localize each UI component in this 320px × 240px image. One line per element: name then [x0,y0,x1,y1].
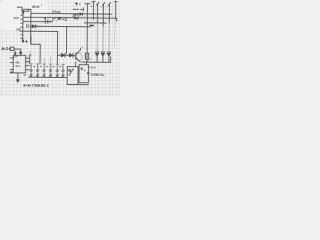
boxes shared bottom [67,83,88,85]
plus-dot (75-80,2-5) [75,3,77,5]
paper background [0,0,120,96]
speck top-left [1,0,2,1]
riser above C4 [50,57,52,65]
wire row y21.8 [23,20,52,22]
diode D1 [80,13,83,16]
IC U3 left edge [22,10,24,42]
wire row y17.7 [23,17,117,21]
electrolytic capacitor C3 [43,64,49,77]
speck above Q2 [82,47,83,48]
wire row y31.6 [20,30,57,32]
IC1 right pins [26,58,30,70]
feed wire to B2 [85,62,87,65]
vignette [0,0,120,96]
diode D3 down [101,51,105,56]
box IC1 [13,55,26,73]
wire row y26.6 [31,25,90,28]
box B1 [67,67,78,85]
top-left wash [0,0,48,30]
diode D6 [69,53,72,57]
wire y55 with series diodes [58,54,75,56]
ground arrow under IC1 [17,73,19,80]
right bus y22.6 [84,22,106,24]
trimmer T3 (x97) [96,2,99,23]
IC U3 pin blob bottom [22,40,24,43]
ground bus y77.4 [29,76,66,78]
svg-text:IC1: IC1 [15,64,20,68]
right pin vertical [29,56,31,64]
diode D4 down [107,51,111,56]
MIC label [2,48,10,50]
trimmer T1 (x87) [85,4,90,24]
trimmer T4 (x103) [102,3,105,27]
IC U3 pin blob top [22,12,24,14]
box B2 [79,65,89,83]
svg-text:ANT: ANT [13,16,19,20]
IC1 left pin ticks [10,58,13,70]
B1 diagonal scribble [69,69,73,76]
hook mark (52-56,18-21) [53,19,56,21]
component cluster (44-50,19-23) [44,18,48,23]
IC U3 top edge [23,8,31,10]
B2 plus marks [81,67,83,69]
marks (63-67,17-21) [65,18,67,20]
IC U3 pin ticks [21,15,23,38]
IC U3 right edge [30,10,32,44]
diode D7 on y18 wire [58,17,61,20]
vertical drop x87 to element [86,23,88,53]
vertical x66.5 [65,27,67,54]
arrow down at x20.8 [19,52,22,55]
svg-text:24W/4u: 24W/4u [91,73,105,77]
electrolytic capacitor C4 [49,64,55,77]
MIC wire [14,49,21,55]
electrolytic capacitor C1 [30,64,36,77]
tick mark (80-84,7-10) [80,8,83,11]
bottom-left IC box vertical wire from row y44 [31,36,41,64]
electrolytic capacitor C6 [61,64,64,77]
blob on wire end (90-93,25) [90,24,93,26]
Q scribble [29,54,31,56]
diode D2 down [95,51,99,56]
trimmer T6 (x115) [114,1,117,19]
electrolytic capacitor C2 [36,64,42,77]
right bottom bus y61.8 [82,56,111,62]
vertical x57.5 [56,32,58,64]
feed wire to B1 [75,62,77,67]
trimmer T2 (x93) [92,2,95,20]
svg-text:ansl: ansl [32,5,39,9]
diode D5 [61,53,64,57]
riser above C3 [43,59,45,64]
electrolytic capacitor C5 [56,64,62,77]
crystal marks inside box (26-30,24-28) [27,24,29,27]
dash-dot annotation (73-78,9) [73,8,78,10]
fuse element on x87 [85,53,88,59]
svg-text:4+Θ ΓMKΦt Σ: 4+Θ ΓMKΦt Σ [23,83,50,88]
antenna lead-in wire [18,7,29,11]
transistor Q1 circle [73,14,78,19]
left edge shading [0,0,2,96]
transistor Q2 [75,53,83,61]
svg-text:D+ux: D+ux [52,10,60,14]
star mark (25-27,40-43) [25,40,27,42]
mark (24-26,74-77) [24,74,26,76]
input arrow into IC1 top [14,51,16,55]
trimmer T5 (x109) [108,2,111,23]
svg-text:u.mot: u.mot [88,65,96,69]
MIC element box [10,47,14,50]
paper grain [0,0,120,96]
diode D8 between rows (31-36,24-28) [32,25,35,28]
plus mark left [10,71,12,73]
junction dots top buses [87,13,88,14]
wire row y13.7 [31,12,112,15]
